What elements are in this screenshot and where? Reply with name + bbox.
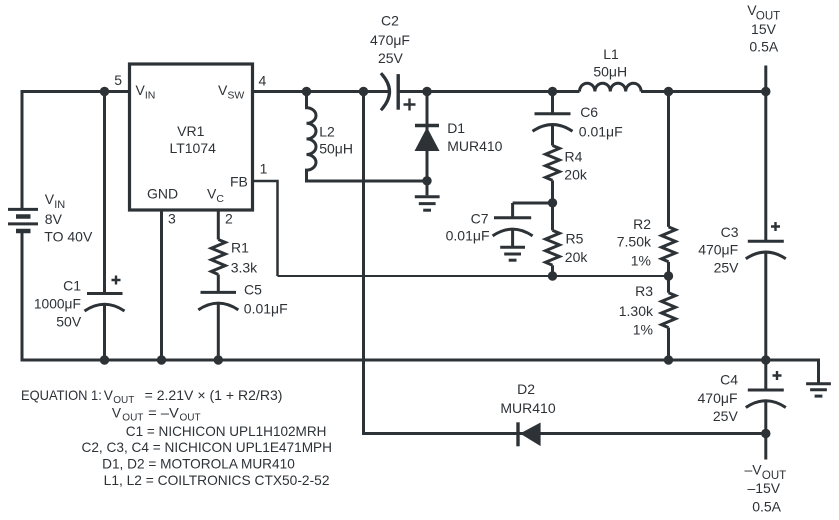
svg-text:EQUATION 1:: EQUATION 1: <box>21 388 102 403</box>
svg-text:GND: GND <box>147 186 178 202</box>
svg-text:3: 3 <box>168 211 176 227</box>
svg-text:MUR410: MUR410 <box>500 400 555 416</box>
svg-text:20k: 20k <box>565 249 589 265</box>
svg-text:0.01μF: 0.01μF <box>579 124 623 140</box>
svg-text:R3: R3 <box>635 283 653 299</box>
svg-text:C1: C1 <box>63 277 81 293</box>
svg-text:IN: IN <box>145 90 156 102</box>
svg-text:1%: 1% <box>631 253 651 269</box>
svg-text:1000μF: 1000μF <box>34 296 81 312</box>
svg-text:C6: C6 <box>580 104 598 120</box>
svg-text:0.5A: 0.5A <box>752 498 781 514</box>
svg-text:R1: R1 <box>231 240 249 256</box>
svg-text:FB: FB <box>230 174 248 190</box>
svg-text:4: 4 <box>259 73 267 89</box>
svg-text:–V: –V <box>745 461 763 477</box>
svg-text:IN: IN <box>54 199 65 211</box>
svg-text:L1: L1 <box>603 46 619 62</box>
svg-text:R5: R5 <box>566 231 584 247</box>
svg-text:3.3k: 3.3k <box>231 259 258 275</box>
svg-text:20k: 20k <box>564 167 588 183</box>
svg-text:TO 40V: TO 40V <box>44 229 93 245</box>
svg-text:1%: 1% <box>633 321 653 337</box>
svg-text:C2: C2 <box>381 12 399 28</box>
svg-text:= –V: = –V <box>148 406 180 421</box>
svg-text:2: 2 <box>225 211 233 227</box>
svg-text:50μH: 50μH <box>319 141 353 157</box>
svg-text:50V: 50V <box>56 314 82 330</box>
svg-text:7.50k: 7.50k <box>617 233 652 249</box>
svg-text:C1 = NICHICON UPL1H102MRH: C1 = NICHICON UPL1H102MRH <box>126 424 327 439</box>
svg-text:R4: R4 <box>565 149 583 165</box>
svg-text:C2, C3, C4 = NICHICON UPL1E471: C2, C3, C4 = NICHICON UPL1E471MPH <box>82 440 333 455</box>
svg-text:L1, L2 = COILTRONICS CTX50-2-5: L1, L2 = COILTRONICS CTX50-2-52 <box>104 473 330 488</box>
svg-text:OUT: OUT <box>113 395 134 406</box>
svg-text:R2: R2 <box>633 216 651 232</box>
svg-text:25V: 25V <box>713 408 739 424</box>
svg-text:470μF: 470μF <box>698 242 738 258</box>
svg-text:LT1074: LT1074 <box>169 140 216 156</box>
svg-text:8V: 8V <box>45 211 63 227</box>
svg-text:C: C <box>216 193 224 205</box>
svg-text:OUT: OUT <box>180 413 201 424</box>
svg-text:D1: D1 <box>447 120 465 136</box>
svg-text:MUR410: MUR410 <box>447 138 502 154</box>
svg-text:OUT: OUT <box>122 413 143 424</box>
svg-text:1.30k: 1.30k <box>619 303 654 319</box>
svg-text:D1, D2 = MOTOROLA MUR410: D1, D2 = MOTOROLA MUR410 <box>102 456 295 471</box>
svg-text:1: 1 <box>260 161 268 177</box>
svg-text:V: V <box>112 406 122 421</box>
svg-text:C3: C3 <box>721 224 739 240</box>
svg-text:25V: 25V <box>714 259 740 275</box>
svg-text:C7: C7 <box>471 211 489 227</box>
svg-text:0.01μF: 0.01μF <box>446 227 490 243</box>
svg-text:15V: 15V <box>751 21 777 37</box>
svg-text:–15V: –15V <box>747 480 780 496</box>
svg-text:5: 5 <box>114 72 122 88</box>
svg-text:C4: C4 <box>720 372 738 388</box>
svg-text:L2: L2 <box>319 123 335 139</box>
svg-text:= 2.21V × (1 + R2/R3): = 2.21V × (1 + R2/R3) <box>145 388 283 403</box>
svg-text:50μH: 50μH <box>593 64 627 80</box>
svg-text:SW: SW <box>227 90 244 102</box>
svg-text:0.01μF: 0.01μF <box>244 300 288 316</box>
svg-text:0.5A: 0.5A <box>749 38 778 54</box>
svg-text:470μF: 470μF <box>370 32 410 48</box>
svg-text:470μF: 470μF <box>698 390 738 406</box>
svg-text:C5: C5 <box>244 282 262 298</box>
svg-text:VR1: VR1 <box>177 123 204 139</box>
svg-text:D2: D2 <box>517 381 535 397</box>
svg-text:25V: 25V <box>378 50 404 66</box>
